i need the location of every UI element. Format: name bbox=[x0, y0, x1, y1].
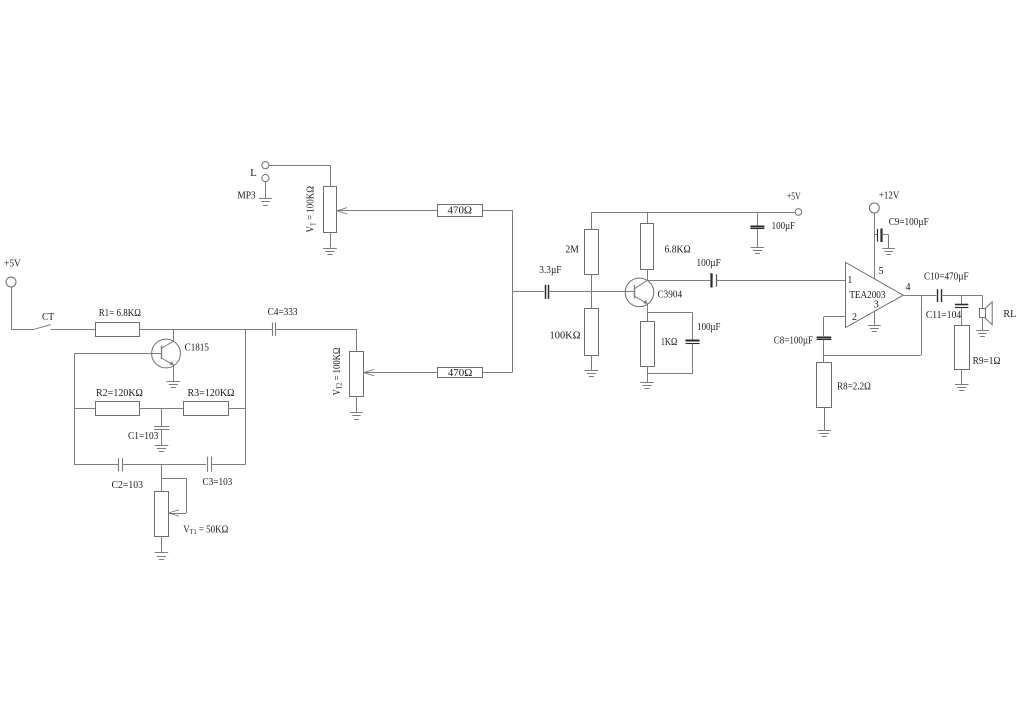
svg-text:470Ω: 470Ω bbox=[448, 205, 473, 217]
svg-text:C1=103: C1=103 bbox=[128, 430, 159, 442]
svg-text:+12V: +12V bbox=[879, 189, 899, 201]
svg-text:C3904: C3904 bbox=[658, 289, 683, 301]
svg-text:C8=100µF: C8=100µF bbox=[774, 335, 813, 347]
svg-text:CT: CT bbox=[42, 311, 54, 323]
svg-text:3: 3 bbox=[874, 300, 879, 311]
svg-text:+5V: +5V bbox=[4, 257, 21, 269]
svg-text:C10=470µF: C10=470µF bbox=[924, 271, 969, 283]
svg-text:1: 1 bbox=[847, 275, 852, 286]
svg-text:L: L bbox=[250, 167, 257, 179]
svg-text:100KΩ: 100KΩ bbox=[550, 330, 581, 342]
svg-text:R9=1Ω: R9=1Ω bbox=[973, 355, 1001, 367]
svg-text:R2=120KΩ: R2=120KΩ bbox=[96, 387, 143, 399]
svg-text:470Ω: 470Ω bbox=[448, 367, 473, 379]
svg-text:C4=333: C4=333 bbox=[268, 306, 298, 318]
svg-text:RL: RL bbox=[1003, 308, 1016, 320]
svg-text:MP3: MP3 bbox=[237, 190, 256, 202]
svg-text:2M: 2M bbox=[565, 243, 579, 255]
svg-text:C9=100µF: C9=100µF bbox=[889, 216, 929, 228]
svg-text:5: 5 bbox=[879, 266, 884, 277]
svg-text:3.3µF: 3.3µF bbox=[539, 264, 561, 276]
svg-text:100µF: 100µF bbox=[772, 220, 796, 232]
svg-text:1KΩ: 1KΩ bbox=[661, 336, 678, 348]
svg-text:6.8KΩ: 6.8KΩ bbox=[664, 243, 690, 255]
svg-text:2: 2 bbox=[852, 312, 857, 323]
svg-text:4: 4 bbox=[906, 282, 911, 293]
svg-text:TEA2003: TEA2003 bbox=[849, 289, 886, 301]
svg-text:R3=120KΩ: R3=120KΩ bbox=[188, 387, 235, 399]
svg-text:100µF: 100µF bbox=[697, 257, 721, 269]
svg-text:C2=103: C2=103 bbox=[112, 479, 144, 491]
svg-text:C1815: C1815 bbox=[185, 341, 210, 353]
svg-text:R1= 6.8KΩ: R1= 6.8KΩ bbox=[99, 307, 141, 319]
svg-text:C11=104: C11=104 bbox=[926, 309, 962, 321]
svg-text:+5V: +5V bbox=[787, 191, 801, 203]
svg-text:R8=2.2Ω: R8=2.2Ω bbox=[837, 380, 871, 392]
svg-text:C3=103: C3=103 bbox=[203, 476, 233, 488]
svg-text:100µF: 100µF bbox=[697, 321, 720, 333]
